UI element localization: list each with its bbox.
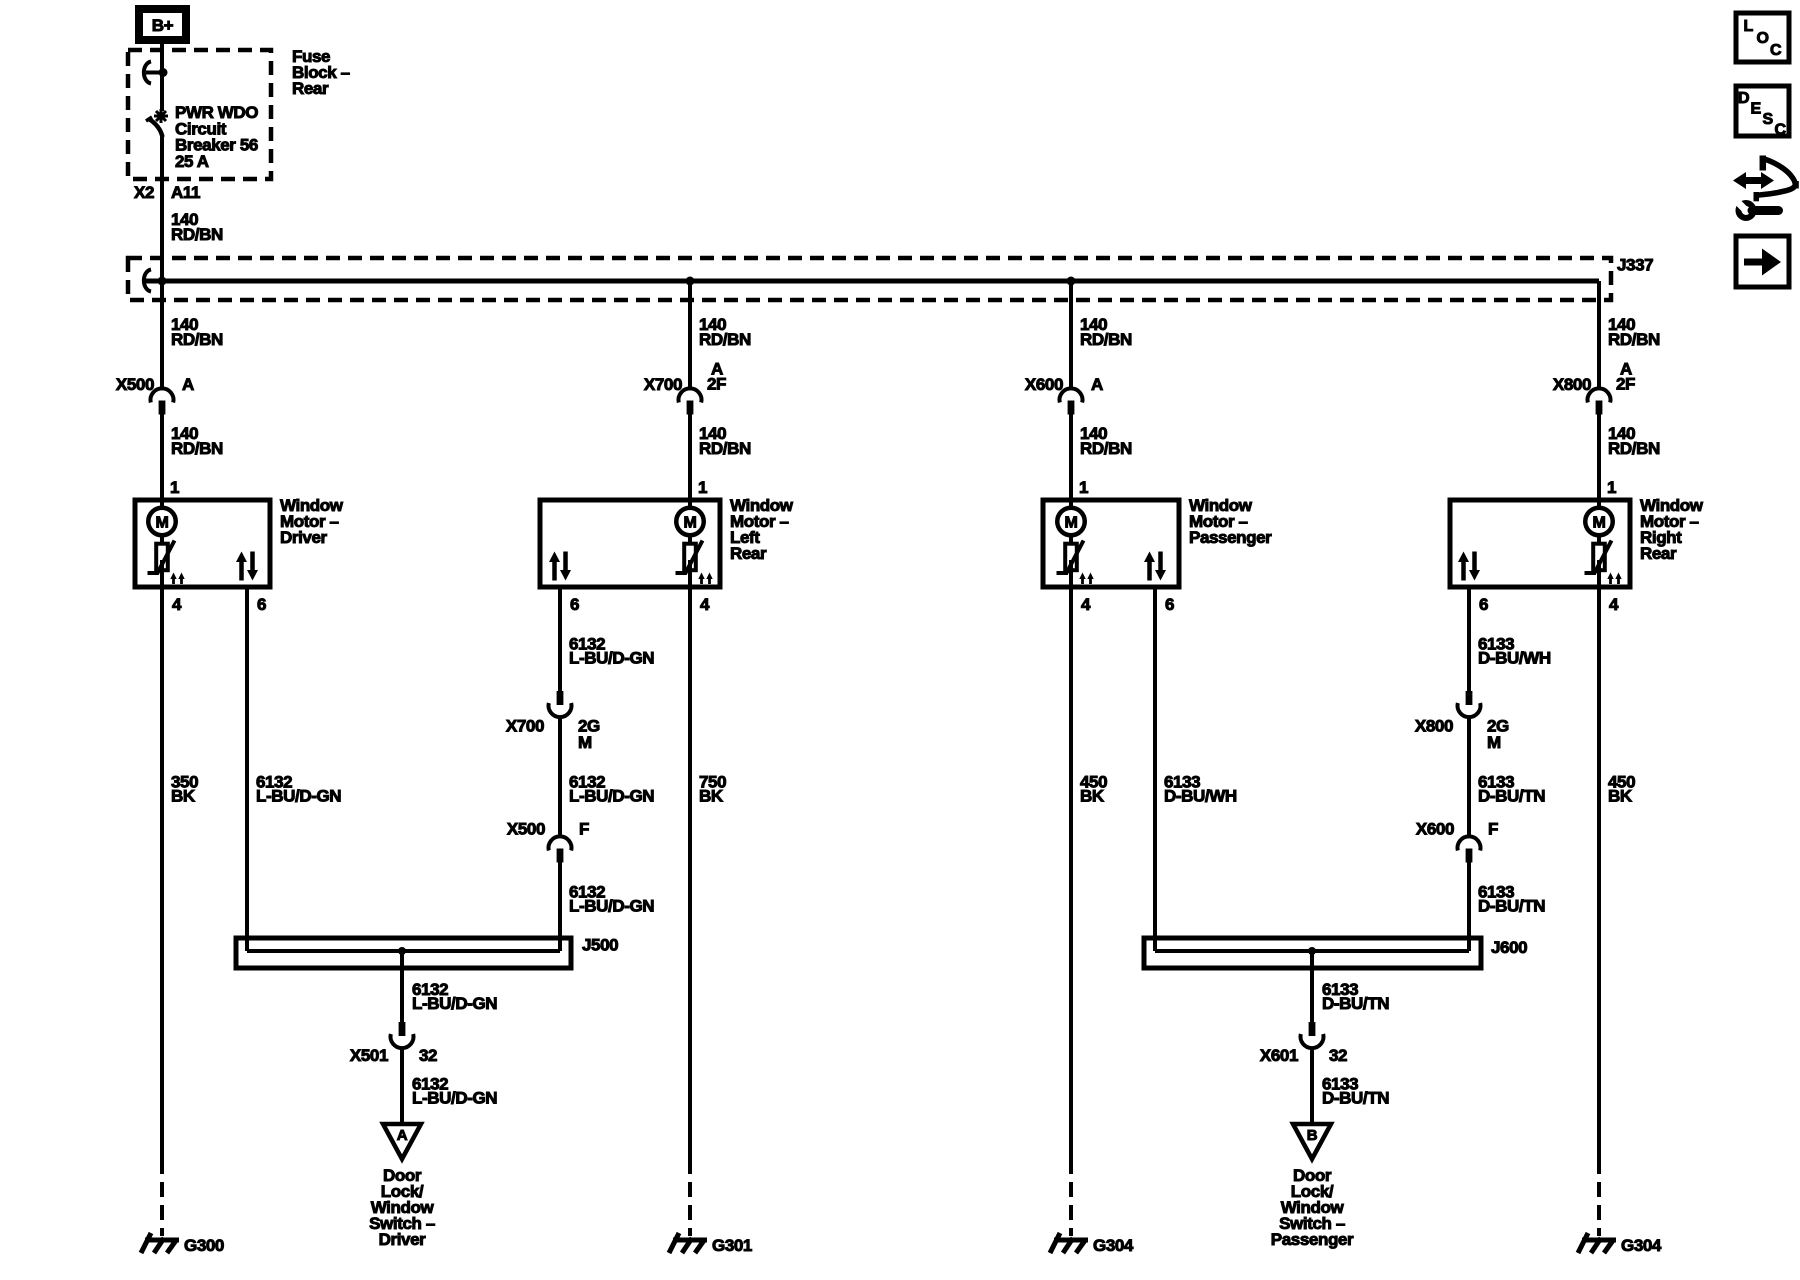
wire out of splice [1310,951,1314,1022]
svg-text:D-BU/TN: D-BU/TN [1478,787,1545,806]
svg-text:Rear: Rear [1640,544,1677,563]
svg-text:X700: X700 [506,717,544,736]
svg-text:L-BU/D-GN: L-BU/D-GN [569,649,654,668]
wire label 140 RD/BN [699,315,751,349]
splice pack J337 (dashed box) [128,258,1611,300]
wire label 450 BK [1080,773,1107,806]
wire label 140 RD/BN [1608,315,1660,349]
wire label 140 RD/BN [171,210,223,244]
junction at left rear drop [686,277,695,286]
wire label 6132 L-BU/D-GN [569,635,654,668]
svg-text:L: L [1744,18,1754,35]
svg-text:L-BU/D-GN: L-BU/D-GN [412,1089,497,1108]
connector X800 pin A [1553,360,1635,415]
window motor box branch 4 [1450,500,1630,587]
wire [1467,862,1471,951]
wire out of splice [400,951,404,1022]
window motor box branch 1 [135,500,270,587]
svg-text:X501: X501 [350,1046,388,1065]
svg-text:4: 4 [1609,595,1619,614]
motor name label branch 2 [730,496,794,563]
wire drop from J337 branch 4 [1597,281,1601,389]
svg-text:RD/BN: RD/BN [699,330,751,349]
svg-text:G304: G304 [1621,1236,1662,1255]
ground wire branch 3 [1069,560,1073,1174]
wire drop from J337 branch 3 [1069,281,1073,389]
svg-text:X500: X500 [507,820,545,839]
svg-text:G304: G304 [1093,1236,1134,1255]
svg-text:A: A [1091,375,1103,394]
svg-text:G301: G301 [712,1236,752,1255]
svg-text:M: M [578,733,592,752]
svg-text:BK: BK [699,787,724,806]
wire [1467,717,1471,836]
window motor box branch 3 [1043,500,1179,587]
wire label 6133 D-BU/TN [1478,883,1545,916]
wire [558,717,562,836]
connector X700 pin 2G M [506,691,600,752]
wire 140 RD/BN to motor [1069,414,1073,507]
svg-text:E: E [1751,101,1762,118]
ground G304 [1578,1233,1662,1255]
svg-text:X600: X600 [1025,375,1063,394]
ground wire branch 4 [1597,560,1601,1174]
wire 140 RD/BN to motor [1597,414,1601,507]
svg-text:BK: BK [1608,787,1633,806]
fuse block - rear (dashed box) [128,50,271,179]
wire label 6133 D-BU/WH [1478,635,1551,668]
motor name label branch 1 [280,496,344,547]
svg-text:RD/BN: RD/BN [171,330,223,349]
svg-text:RD/BN: RD/BN [171,225,223,244]
svg-text:Driver: Driver [280,528,328,547]
svg-text:A11: A11 [171,183,200,202]
up/down arrows branch 4 [1458,552,1480,581]
svg-text:X2: X2 [134,183,154,202]
motor M branch 3 [1057,500,1094,584]
motor name label branch 4 [1640,496,1704,563]
svg-text:L-BU/D-GN: L-BU/D-GN [256,787,341,806]
connector X700 pin A [644,360,726,415]
wire 140 RD/BN to motor [160,414,164,507]
svg-text:J600: J600 [1491,938,1527,957]
wire drop from J337 branch 2 [688,281,692,389]
wire label 6132 L-BU/D-GN [569,883,654,916]
svg-text:RD/BN: RD/BN [171,439,223,458]
icon LOC box [1736,13,1789,62]
up/down arrows branch 3 [1144,552,1166,581]
fuse block label [292,47,350,98]
svg-text:X700: X700 [644,375,682,394]
svg-text:D-BU/WH: D-BU/WH [1478,649,1551,668]
svg-text:J337: J337 [1617,256,1653,275]
svg-text:2F: 2F [707,375,726,394]
wire label 6133 D-BU/WH [1164,773,1237,806]
wire label 6132 L-BU/D-GN [256,773,341,806]
svg-text:C: C [1775,122,1787,139]
breaker label [175,103,258,171]
svg-text:J500: J500 [582,936,618,955]
motor M branch 2 [676,500,713,584]
svg-text:2F: 2F [1616,375,1635,394]
connector X500 pin F [507,820,589,863]
motor name label branch 3 [1189,496,1272,547]
terminal hook in fuse block [144,62,164,84]
svg-text:L-BU/D-GN: L-BU/D-GN [569,787,654,806]
svg-text:1: 1 [170,478,179,497]
ground wire branch 2 [688,560,692,1174]
svg-text:Rear: Rear [292,79,329,98]
svg-text:S: S [1763,111,1774,128]
wire pin 6 branch 2 [558,587,562,691]
svg-text:RD/BN: RD/BN [1080,439,1132,458]
terminal hook in J337 [144,270,151,292]
svg-text:1: 1 [698,478,707,497]
wire [558,862,562,951]
svg-text:1: 1 [1079,478,1088,497]
svg-text:6: 6 [1479,595,1488,614]
icon DESC box [1736,86,1789,139]
svg-text:M: M [1593,514,1606,531]
ground G301 [669,1233,752,1255]
connector X501 pin 32 [350,1022,437,1065]
wire label 6132 L-BU/D-GN [412,980,497,1013]
svg-text:RD/BN: RD/BN [1608,330,1660,349]
svg-text:D-BU/TN: D-BU/TN [1322,1089,1389,1108]
window motor box branch 2 [540,500,720,587]
wire pin 6 branch 3 [1153,587,1157,951]
power node B+ [139,9,186,40]
icon forward arrow box [1736,236,1789,287]
svg-text:G300: G300 [184,1236,224,1255]
svg-text:D: D [1738,90,1749,107]
svg-text:A: A [397,1127,408,1144]
svg-text:F: F [1488,820,1498,839]
svg-text:Passenger: Passenger [1271,1230,1354,1249]
wire B+ to fuse block junction [160,44,164,75]
junction at passenger drop [1067,277,1076,286]
wire label 6133 D-BU/TN [1478,773,1545,806]
off-page triangle B [1293,1124,1331,1159]
wire to switch [400,1048,404,1124]
wire label 6133 D-BU/TN [1322,1075,1389,1108]
wire label 140 RD/BN [171,315,223,349]
wire label 6133 D-BU/TN [1322,980,1389,1013]
svg-text:M: M [1487,733,1501,752]
svg-text:F: F [579,820,589,839]
connector X600 pin A [1025,375,1103,415]
junction dot [159,68,168,77]
svg-text:32: 32 [1329,1046,1347,1065]
svg-text:6: 6 [1165,595,1174,614]
svg-text:RD/BN: RD/BN [699,439,751,458]
J337 label [1617,256,1653,275]
circuit breaker 56 [146,73,168,282]
svg-text:RD/BN: RD/BN [1080,330,1132,349]
svg-text:M: M [156,514,169,531]
motor M branch 1 [148,500,185,584]
wire label 750 BK [699,773,726,806]
connector X600 pin F [1416,820,1498,863]
svg-text:X600: X600 [1416,820,1454,839]
wire label 450 BK [1608,773,1635,806]
svg-text:C: C [1770,42,1782,59]
svg-text:32: 32 [419,1046,437,1065]
svg-text:M: M [684,514,697,531]
ground G300 [141,1233,224,1255]
svg-text:L-BU/D-GN: L-BU/D-GN [412,994,497,1013]
wire label 6132 L-BU/D-GN [412,1075,497,1108]
svg-text:X601: X601 [1260,1046,1298,1065]
svg-text:B: B [1307,1127,1318,1144]
svg-text:Driver: Driver [379,1230,427,1249]
connector X500 pin A [116,375,194,415]
svg-text:6: 6 [257,595,266,614]
svg-text:D-BU/WH: D-BU/WH [1164,787,1237,806]
up/down arrows branch 2 [549,552,571,581]
icon vehicle/arrows/wrench [1733,156,1799,219]
wire label 140 RD/BN [1080,315,1132,349]
door lock/window switch label Passenger [1271,1166,1354,1249]
svg-text:O: O [1757,30,1769,47]
wire label 6132 L-BU/D-GN [569,773,654,806]
svg-text:4: 4 [172,595,182,614]
wire pin 6 branch 4 [1467,587,1471,691]
svg-text:BK: BK [1080,787,1105,806]
svg-text:X500: X500 [116,375,154,394]
ground wire branch 1 [160,560,164,1174]
svg-text:B+: B+ [152,16,174,35]
wire pin 6 branch 1 [245,587,249,951]
svg-text:Rear: Rear [730,544,767,563]
connector X2 pin A11 [134,183,200,202]
off-page triangle A [383,1124,421,1159]
svg-text:X800: X800 [1553,375,1591,394]
splice J500 [236,936,618,969]
connector X800 pin 2G M [1415,691,1509,752]
svg-text:4: 4 [700,595,710,614]
svg-text:BK: BK [171,787,196,806]
bus wire 140 RD/BN [145,279,1599,284]
connector X601 pin 32 [1260,1022,1347,1065]
junction at driver drop [158,277,167,286]
svg-text:X800: X800 [1415,717,1453,736]
splice J600 [1144,938,1527,968]
svg-text:RD/BN: RD/BN [1608,439,1660,458]
svg-text:6: 6 [570,595,579,614]
motor M branch 4 [1585,500,1622,584]
svg-text:A: A [182,375,194,394]
wire to switch [1310,1048,1314,1124]
ground G304 [1050,1233,1134,1255]
wire drop from J337 branch 1 [160,281,164,389]
svg-text:1: 1 [1607,478,1616,497]
up/down arrows branch 1 [236,552,258,581]
svg-text:4: 4 [1081,595,1091,614]
svg-text:M: M [1065,514,1078,531]
svg-text:D-BU/TN: D-BU/TN [1322,994,1389,1013]
door lock/window switch label Driver [369,1166,435,1249]
svg-text:25 A: 25 A [175,152,209,171]
svg-text:L-BU/D-GN: L-BU/D-GN [569,897,654,916]
wire 140 RD/BN to motor [688,414,692,507]
svg-text:D-BU/TN: D-BU/TN [1478,897,1545,916]
wire label 350 BK [171,773,198,806]
svg-text:Passenger: Passenger [1189,528,1272,547]
